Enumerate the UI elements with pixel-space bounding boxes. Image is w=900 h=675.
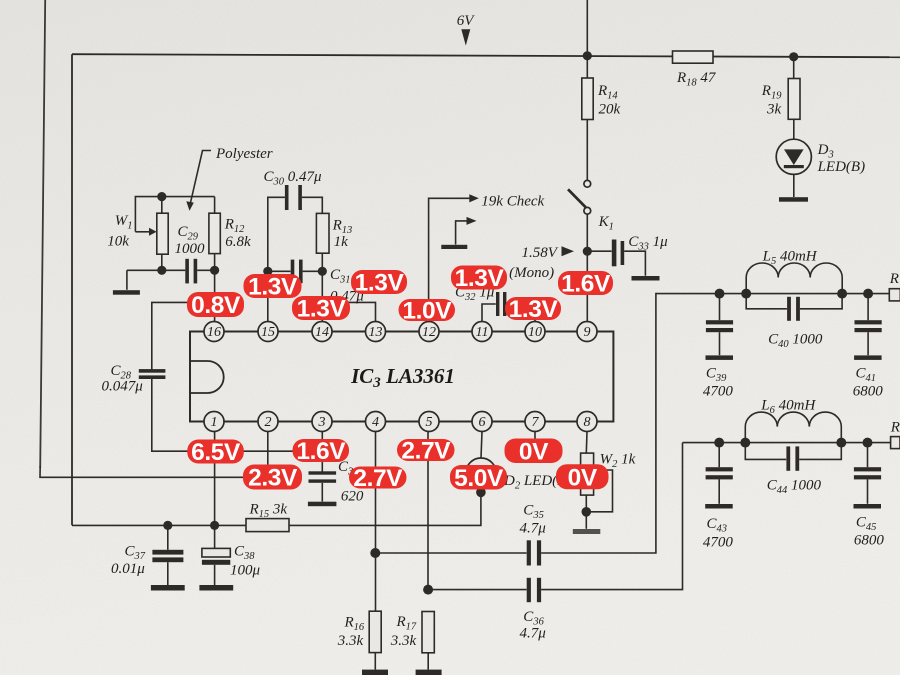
svg-text:1.3V: 1.3V [509,296,559,323]
svg-text:0.8V: 0.8V [191,292,241,319]
svg-text:3.3k: 3.3k [337,633,364,649]
svg-text:6V: 6V [457,13,476,29]
svg-text:3.3k: 3.3k [390,633,417,649]
svg-text:5: 5 [426,415,433,430]
svg-text:1.3V: 1.3V [455,265,505,292]
svg-text:L6 40mH: L6 40mH [760,398,816,417]
svg-text:9: 9 [584,325,591,340]
svg-text:0V: 0V [568,464,598,491]
svg-text:5.0V: 5.0V [454,465,504,492]
svg-text:4.7μ: 4.7μ [520,626,547,642]
svg-text:1k: 1k [334,234,349,250]
svg-text:R: R [890,420,900,436]
svg-text:4700: 4700 [703,535,734,551]
svg-text:C33 1μ: C33 1μ [628,234,668,253]
svg-text:C40 1000: C40 1000 [768,332,823,351]
svg-text:20k: 20k [599,102,621,118]
svg-text:7: 7 [532,415,540,430]
svg-text:4: 4 [372,415,379,430]
svg-text:1.6V: 1.6V [296,438,346,465]
svg-text:2: 2 [265,415,272,430]
svg-text:C44 1000: C44 1000 [767,478,822,497]
svg-text:0.01μ: 0.01μ [111,561,145,577]
svg-text:4.7μ: 4.7μ [520,521,547,537]
svg-text:2.7V: 2.7V [401,438,451,465]
svg-text:IC3 LA3361: IC3 LA3361 [350,364,455,391]
svg-text:2.7V: 2.7V [353,465,403,492]
svg-text:3: 3 [318,415,326,430]
svg-text:Polyester: Polyester [215,146,273,162]
svg-text:1.6V: 1.6V [561,271,611,298]
svg-text:0.047μ: 0.047μ [102,379,144,395]
svg-text:6800: 6800 [854,533,885,549]
svg-text:1.0V: 1.0V [402,298,452,325]
svg-text:1: 1 [211,415,218,430]
svg-text:6800: 6800 [853,384,884,400]
svg-text:C30 0.47μ: C30 0.47μ [264,169,323,188]
svg-text:(Mono): (Mono) [509,265,554,281]
svg-text:L5 40mH: L5 40mH [762,249,818,268]
svg-text:LED(B): LED(B) [817,159,866,175]
svg-text:6.8k: 6.8k [225,234,251,250]
svg-text:1.3V: 1.3V [297,296,347,323]
svg-text:1.58V: 1.58V [522,245,559,261]
svg-text:12: 12 [422,325,436,340]
svg-text:1.3V: 1.3V [248,274,298,301]
svg-text:8: 8 [584,415,591,430]
svg-text:13: 13 [369,325,383,340]
svg-text:R18 47: R18 47 [676,70,717,89]
svg-text:16: 16 [207,325,221,340]
svg-text:1000: 1000 [175,241,206,257]
svg-text:6: 6 [479,415,486,430]
svg-text:2.3V: 2.3V [248,465,298,492]
svg-text:R: R [889,271,899,287]
svg-text:4700: 4700 [703,384,734,400]
svg-text:11: 11 [476,325,489,340]
svg-text:3k: 3k [766,102,782,118]
svg-text:100μ: 100μ [230,563,261,579]
svg-text:1.3V: 1.3V [355,270,405,297]
svg-text:15: 15 [261,325,275,340]
svg-text:14: 14 [315,325,329,340]
svg-text:19k Check: 19k Check [481,194,544,210]
svg-text:6.5V: 6.5V [191,439,241,466]
svg-text:10: 10 [528,325,542,340]
svg-text:10k: 10k [107,234,129,250]
svg-text:0V: 0V [519,438,549,465]
